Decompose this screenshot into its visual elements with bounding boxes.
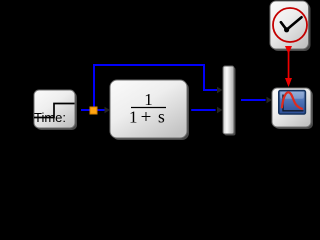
svg-text:Time:: Time:: [34, 110, 66, 125]
svg-text:1: 1: [129, 108, 138, 127]
svg-text:s: s: [158, 107, 165, 127]
svg-text:+: +: [141, 107, 152, 128]
